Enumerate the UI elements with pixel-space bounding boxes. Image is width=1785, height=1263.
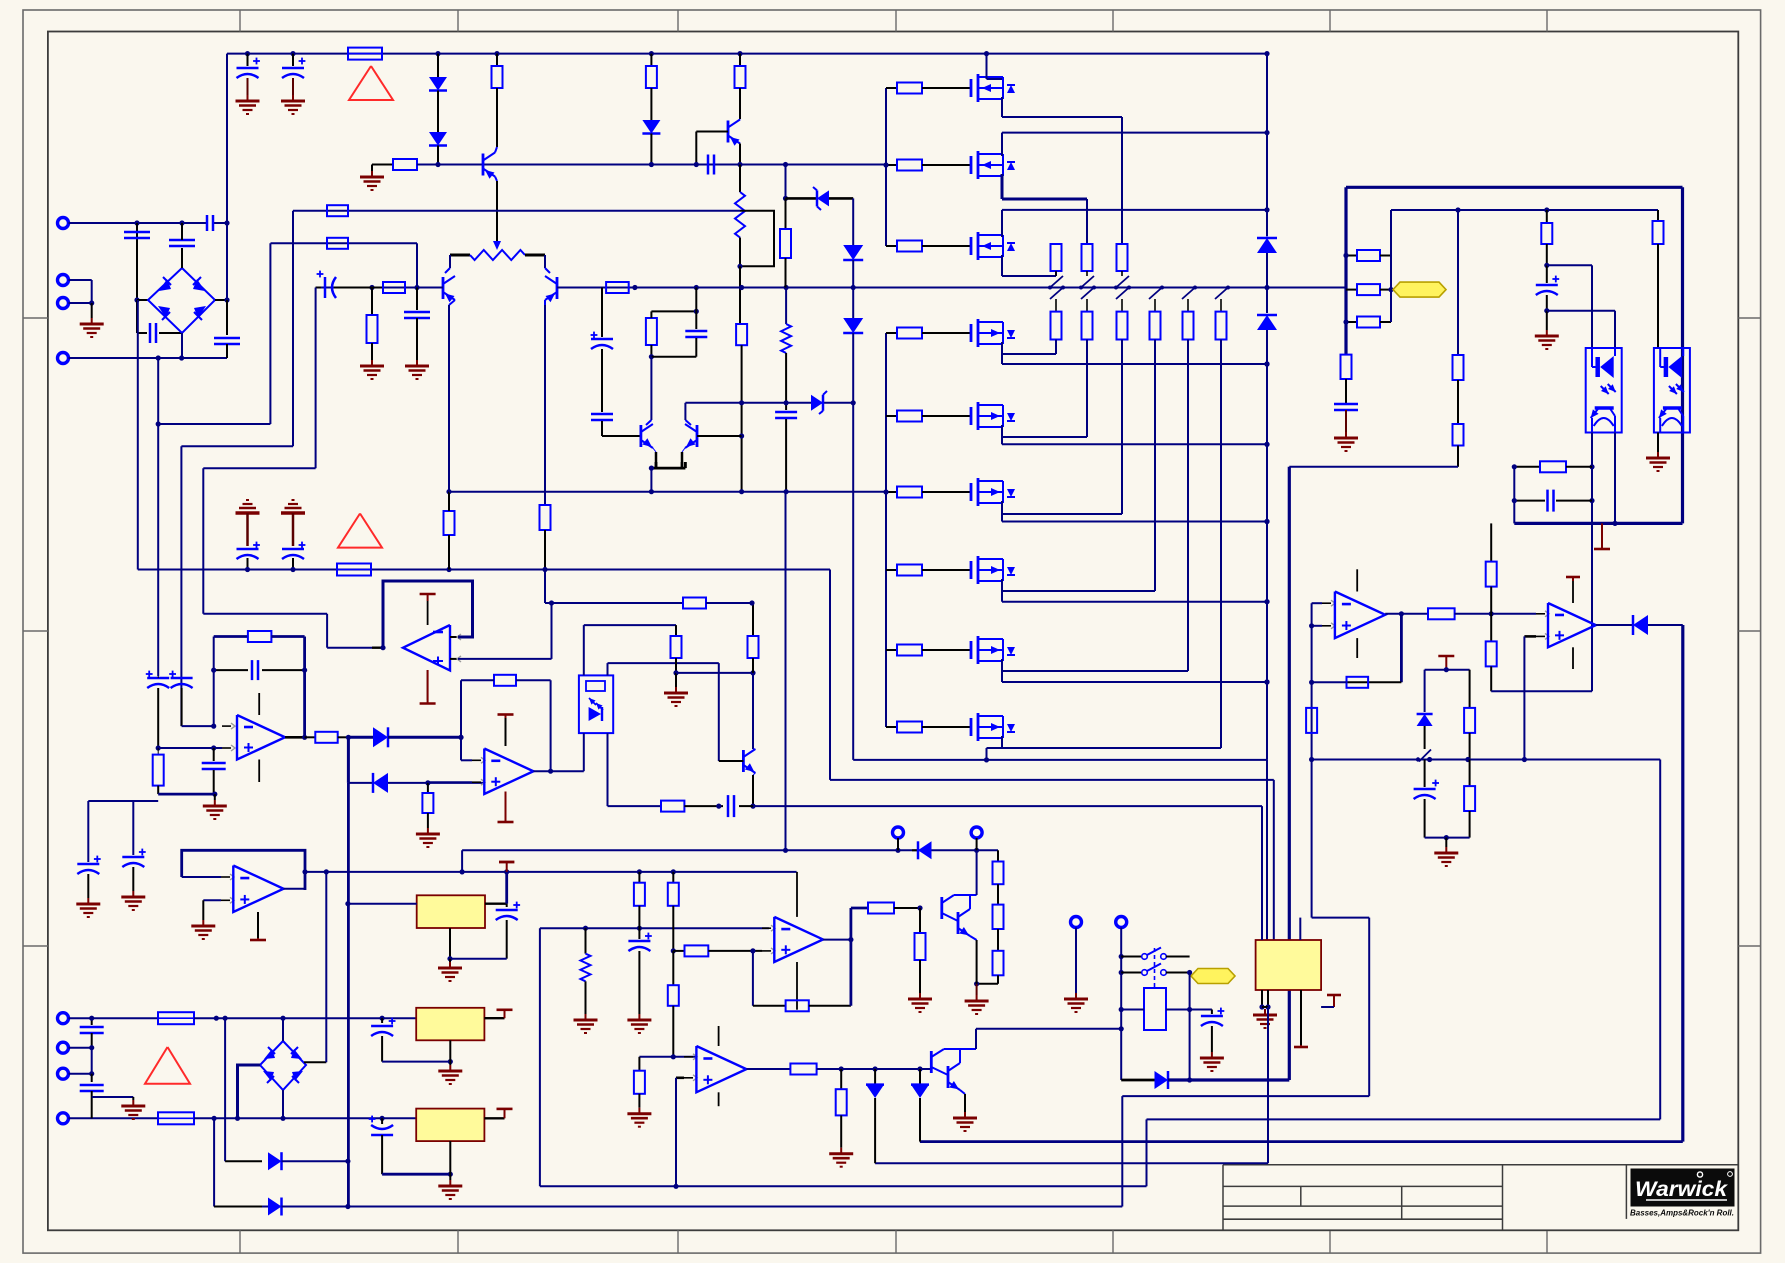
resistor R4 on y211: [327, 205, 348, 216]
x225 drop to diode row1: [224, 1018, 226, 1161]
x1189 riser: [1189, 973, 1191, 1081]
op-amp U7: [472, 759, 481, 761]
zener D14: [874, 1069, 876, 1085]
diode chain x853: [852, 198, 854, 245]
U10 output: [746, 1068, 790, 1070]
rectifier diode D17: [268, 1198, 282, 1216]
vertical x1311: [1311, 603, 1313, 917]
Q1 emitter drop to pot wiper: [495, 177, 497, 182]
Q4 base wire: [696, 131, 728, 133]
MOSFET M7: [958, 569, 971, 571]
branch y468: [203, 467, 315, 469]
main top rail +supply: [227, 53, 1267, 55]
fuse F1 on top rail: [348, 48, 382, 60]
freewheel diode D7: [1266, 288, 1268, 314]
riser x1391: [1390, 210, 1392, 322]
capacitor X1 on pin1 wire: [206, 215, 209, 231]
series resistor R to U5: [1428, 608, 1455, 619]
chassis ground branch: [92, 1096, 134, 1098]
terminal ring T11: [893, 827, 904, 838]
bottom wire threshold cluster: [1425, 837, 1470, 839]
cap R block x651-x696: [651, 310, 696, 312]
snubber cap column x602: [601, 288, 603, 338]
net label relay: [1191, 969, 1235, 984]
chain x998 resistors: [997, 850, 999, 861]
MOSFET M6: [958, 491, 971, 493]
relay coil K1: [1144, 988, 1166, 1030]
gate resistor lower row 4: [886, 332, 897, 334]
base resistor Q8: [851, 907, 868, 910]
wire pin4 to bridge bottom net: [69, 357, 228, 359]
wire y603 from rail: [545, 602, 683, 604]
cap under plus: [213, 748, 215, 761]
staircase vertical x158: [157, 358, 159, 676]
Q4 emitter down: [739, 144, 741, 165]
ground VR3: [449, 1180, 451, 1186]
bridge B2 top pin: [282, 1018, 284, 1041]
ground sense cap 1: [87, 898, 89, 904]
power flag cap pair at x293: [292, 499, 295, 501]
U4 output wire: [1385, 613, 1428, 615]
M9 source to bottom rail: [1001, 736, 1003, 748]
U11 output wire: [284, 888, 305, 890]
gate resistor bus upper: [885, 88, 887, 246]
zigzag resistor x786: [785, 288, 787, 325]
sense cap 1: [77, 863, 99, 866]
gate drive wire y491: [449, 491, 886, 493]
thick right drop x1682: [1681, 187, 1684, 523]
push-pull transistor Q6: [696, 425, 699, 447]
wire y806 to IC: [753, 805, 1262, 807]
wire y466 left: [1289, 466, 1458, 468]
input caps pair: [147, 677, 169, 680]
lower resistor drop wires: [1055, 340, 1057, 355]
bridge B2 left pin thick: [238, 1065, 261, 1118]
staircase vertical x181: [180, 446, 182, 726]
aux rail y872: [305, 871, 797, 873]
diode D2: [429, 132, 447, 146]
threshold cluster power stub: [1445, 656, 1447, 670]
M1 source wire: [1001, 97, 1003, 117]
R x673 upper: [672, 872, 674, 883]
ground base R Q8: [919, 993, 921, 999]
branch x203 drop: [202, 468, 204, 614]
power stub right of IC: [1327, 994, 1341, 997]
R divider x676: [675, 625, 677, 636]
cap column x91 upper: [91, 1018, 93, 1025]
MOSFET M8: [958, 649, 971, 651]
wire pin3: [69, 302, 92, 304]
Warwick logo: [1631, 1169, 1734, 1206]
R x639 to ground: [638, 1057, 640, 1071]
zener D15: [919, 1069, 921, 1085]
trimmer wiper box loop: [740, 211, 774, 267]
feedback resistor op3: [214, 635, 248, 638]
junction x438 y164: [435, 162, 440, 167]
resistor R1 startup: [496, 54, 498, 66]
gate resistor upper row 2: [886, 164, 897, 166]
power stub y523: [1601, 523, 1603, 549]
minus net op2: [639, 1056, 696, 1058]
VR2 input cap: [381, 1018, 383, 1023]
U5 power stubs: [1572, 581, 1574, 603]
ground threshold cluster: [1445, 838, 1447, 847]
reservoir capacitor C1: [247, 54, 249, 66]
opto U2 emitter pin: [1591, 433, 1593, 692]
gate resistor lower row 5: [886, 415, 897, 417]
VR3 ground pin: [449, 1141, 451, 1174]
ground C7: [416, 360, 418, 366]
resistor R2: [372, 164, 393, 166]
U11 power stub: [257, 912, 259, 938]
terminal J1 pin1: [58, 218, 69, 229]
border zone tick marks bottom: [239, 1230, 241, 1253]
branch y424: [156, 421, 161, 426]
ground x1546: [1546, 330, 1548, 336]
coil right wire: [1166, 1009, 1190, 1011]
x853 down to bank bottom rail: [852, 403, 854, 760]
sense caps risers: [87, 801, 89, 862]
wire y243: [271, 242, 418, 244]
terminal J1 pin3: [58, 298, 69, 309]
M3 drain wire: [1001, 210, 1003, 237]
regulator VR1 top: [417, 895, 485, 928]
diode D4: [843, 245, 863, 260]
corner x417 y243 down: [416, 243, 418, 287]
M2 drain wire: [1001, 133, 1003, 156]
mid rail left portion: [316, 287, 443, 289]
wire y672: [676, 672, 753, 674]
terminal T13: [58, 1013, 69, 1024]
U5 plus wire: [1524, 635, 1536, 638]
Q7 base wire: [719, 760, 744, 762]
MOSFET M2: [958, 164, 971, 166]
gate bus junction upper: [883, 162, 888, 167]
terminal ring T12: [971, 827, 982, 838]
title block table: [1223, 1164, 1738, 1166]
darlington Q8: [940, 897, 943, 919]
minus net y928: [540, 927, 769, 929]
IC pin wire y806 corner: [1261, 806, 1263, 940]
VR1 output riser to aux rail: [505, 872, 508, 904]
IC pin power stub: [1300, 990, 1302, 1045]
junction x372 y287: [369, 285, 374, 290]
resistor R10 x740 top: [739, 54, 741, 66]
optocoupler U2: [1586, 348, 1622, 433]
steering diode D11: [348, 736, 373, 739]
right bus junctions: [1264, 361, 1269, 366]
op-amp U5 right: [1536, 613, 1545, 615]
MOSFET M4: [958, 332, 971, 334]
terminal T10: [1116, 917, 1127, 928]
switch SW1a: [1121, 956, 1141, 958]
ground x976: [976, 984, 978, 995]
op-amp U11: [221, 876, 230, 878]
x740 chain to resistor R11: [739, 266, 741, 324]
fuse F3: [158, 1012, 194, 1024]
steering diode D12 row: [347, 737, 350, 783]
VR2 output power stub: [484, 1017, 504, 1019]
zener Z1: [817, 190, 829, 206]
MOSFET M9: [958, 726, 971, 728]
terminal J1 pin4: [58, 353, 69, 364]
gate resistor bus lower: [885, 333, 887, 727]
junction dots top rail: [245, 51, 250, 56]
IC stub top: [1299, 918, 1301, 940]
ground x676: [675, 687, 677, 693]
op-amp U12 facing left: [372, 647, 383, 649]
cap below y759: [1424, 760, 1426, 788]
U11 feedback box: [182, 850, 305, 890]
bus y779: [830, 779, 1274, 781]
Q9 collector riser: [966, 1048, 976, 1050]
bus y1186: [540, 1185, 1147, 1187]
wire y402: [685, 402, 853, 404]
M1 drain to rail: [986, 54, 988, 79]
bottom wire op3: [158, 793, 215, 796]
bus y1119 left drop: [1146, 1119, 1148, 1186]
wire y759: [1312, 759, 1661, 761]
opto U8 photo pin right: [607, 663, 609, 675]
regulator VR3 bottom: [416, 1109, 484, 1142]
aux mains wire y1118: [194, 1117, 416, 1119]
Q8 collector to diode node: [976, 850, 978, 895]
staircase from rail y569 to bus x830: [829, 570, 831, 780]
border zone tick marks left: [23, 317, 48, 319]
resistor R12 on mid rail: [606, 282, 629, 293]
R to ground at x427: [427, 783, 429, 793]
divider chain x1458: [1457, 210, 1459, 355]
capacitor on x227 column: [226, 300, 228, 335]
op-amp U10: [684, 1056, 693, 1058]
wire bridge bottom to x182 column: [181, 333, 183, 358]
wire D1-D2: [437, 91, 439, 133]
U11 plus wire: [203, 899, 221, 901]
border zone tick marks right: [1738, 317, 1760, 319]
Q8 emitter to ground: [976, 940, 978, 984]
right bus x1267: [1266, 54, 1268, 236]
opto U8 cathode bottom wire: [607, 733, 609, 806]
U4 power line: [1356, 569, 1358, 591]
R x673 lower: [672, 951, 674, 985]
U10 power line: [718, 1026, 720, 1046]
VR3 input cap: [381, 1118, 383, 1124]
terminal T9: [1071, 917, 1082, 928]
transistor Q7: [742, 750, 745, 772]
cap x639: [638, 928, 640, 939]
op3 left column: [213, 637, 215, 727]
op-amp U6: [222, 725, 231, 727]
emitter Q6: [682, 448, 685, 452]
U5 output diode D8: [1596, 624, 1633, 626]
gate resistor upper row 1: [886, 87, 897, 89]
U12 plus input wire: [458, 658, 552, 660]
R x639 upper: [638, 872, 640, 883]
resistor right branch: [1469, 670, 1471, 708]
net label flag output: [1393, 282, 1446, 297]
threshold cluster top wire: [1425, 669, 1470, 671]
resistor below y759: [1469, 760, 1471, 787]
x785 drop from driver: [785, 492, 787, 851]
U9 output: [823, 939, 851, 941]
U9 feedback loop: [752, 951, 754, 1006]
junction x696 y287: [694, 285, 699, 290]
drain sharing resistors lower: [1055, 299, 1057, 312]
coil left wire: [1121, 1009, 1144, 1011]
series resistor after U6: [315, 732, 337, 743]
wire pin1 to cap row: [69, 222, 207, 224]
sense resistors 3x: [1346, 255, 1357, 257]
junction x741 y287: [739, 285, 744, 290]
base wire left transistor pair: [602, 435, 641, 437]
gate resistor lower row 7: [886, 569, 897, 571]
ground snubber: [1211, 1052, 1213, 1058]
link jumpers upper to mid rail: [1050, 276, 1063, 288]
switch mechanical link dashed: [1154, 948, 1156, 988]
resistor R9 x651 top: [650, 54, 652, 66]
diode D9: [1424, 670, 1426, 712]
junction x634 y287: [632, 285, 637, 290]
darlington Q9: [930, 1051, 933, 1073]
gate resistor lower row 9: [886, 726, 897, 728]
ground AC input: [91, 318, 93, 324]
U10 plus wire: [676, 1077, 684, 1080]
opto U2 collector pin: [1614, 433, 1616, 524]
ground x585: [585, 1014, 587, 1020]
junction x227 y300: [224, 297, 229, 302]
diode D1: [437, 54, 439, 77]
op-amp U9: [762, 927, 771, 929]
wire y211 to pot box: [293, 210, 740, 212]
optocoupler U3: [1654, 348, 1690, 433]
zigzag R x585: [585, 928, 587, 953]
ground U11 plus: [202, 920, 204, 926]
bridge rectifier B1: [148, 268, 215, 333]
capacitor x1346: [1334, 403, 1358, 406]
ground R7: [371, 360, 373, 366]
relay catch diode D10: [1121, 1079, 1154, 1082]
IC pins from buses: [1261, 990, 1263, 1007]
VR1 power flag on rail: [499, 861, 514, 864]
resistor R7 to ground: [371, 288, 373, 316]
ground x427: [427, 828, 429, 834]
x214 drop to diode row2: [213, 1118, 215, 1206]
bus y759 to IC drop: [1266, 760, 1268, 940]
ground T9: [1075, 993, 1077, 999]
wire bridge top vertex to cap: [181, 248, 183, 268]
comparator left drop x539: [539, 928, 541, 1186]
VR1 input wire: [348, 903, 417, 905]
rectifier diode D16: [268, 1152, 282, 1170]
regulator VR2 mid: [416, 1008, 484, 1041]
cap x1546 polarized: [1536, 284, 1558, 287]
M3 source wire: [1001, 255, 1003, 276]
svg-text:Warwick: Warwick: [1635, 1178, 1728, 1201]
VR1 output cap: [506, 904, 508, 907]
bus y1206: [214, 1206, 1122, 1208]
resistor R13 x785: [785, 198, 787, 229]
junction x158 y358: [156, 355, 161, 360]
ground x639 low: [638, 1108, 640, 1114]
rail y569: [138, 569, 830, 571]
ground C2: [292, 95, 294, 101]
capacitor C on y164 wire: [707, 155, 710, 175]
gate resistor lower row 6: [886, 491, 897, 493]
ground x841: [840, 1148, 842, 1154]
op-amp U4 left: [1322, 602, 1331, 604]
opto U3 left bottom pin to ground: [1657, 433, 1659, 453]
bridge B2 right pin riser: [304, 1061, 326, 1063]
Q2 emitter to R chain x449: [449, 300, 455, 305]
junction node x137 y223: [134, 220, 139, 225]
PI cap y500: [1514, 500, 1545, 502]
border zone tick marks top: [239, 10, 241, 32]
ground VR1: [449, 962, 451, 968]
R below base Q8: [919, 908, 921, 933]
sense cap 2: [122, 856, 144, 859]
ground op3: [214, 794, 216, 800]
warning triangle 1: [349, 66, 393, 100]
resistor on x1311: [1306, 708, 1317, 733]
thick drop x1289: [1288, 467, 1291, 1080]
wire cap top to opto1: [1547, 264, 1592, 266]
bus y779 to IC drop: [1273, 780, 1275, 940]
fuse F4: [158, 1112, 194, 1124]
U6 power line: [258, 693, 260, 715]
rail left riser x137: [137, 300, 139, 570]
resistor R x1658: [1657, 210, 1659, 221]
cap on y806: [727, 795, 730, 817]
ground C1: [247, 95, 249, 101]
ground x1346: [1345, 432, 1347, 438]
gate resistor upper row 3: [886, 245, 897, 247]
coil drive wire from Q: [976, 1028, 1121, 1030]
thick drop x1683: [1681, 625, 1684, 1142]
MOSFET M5: [958, 415, 971, 417]
bias chain x1546: [1546, 210, 1548, 223]
wire y691: [1491, 690, 1592, 692]
terminal T16: [58, 1113, 69, 1124]
terminal J1 pin2: [58, 275, 69, 286]
Q3 emitter to x545 chain: [544, 300, 546, 305]
junction x786 y287: [784, 285, 789, 290]
U7 minus wire: [461, 759, 472, 761]
zener chain top wire y198: [785, 165, 787, 199]
VR1 output wire: [485, 903, 507, 905]
wire y613 to U12 output: [203, 613, 327, 615]
snubber cap relay: [1190, 1009, 1212, 1011]
reservoir capacitor C2: [292, 54, 294, 66]
bank bottom rail: [853, 759, 1267, 761]
zener Z2: [810, 402, 812, 404]
transistor Q3: [544, 255, 546, 268]
ground opto U3: [1657, 452, 1659, 458]
ground sense cap 2: [132, 891, 134, 897]
capacitor below-left of bridge: [137, 332, 147, 334]
collector chain x753: [752, 603, 754, 636]
chain x1491: [1490, 523, 1492, 561]
freewheel diode D6: [1257, 238, 1277, 253]
IC box SSR: [1256, 940, 1322, 990]
junction x417 y287: [414, 285, 419, 290]
U12 feedback box thick: [383, 581, 473, 648]
U12 power pins: [427, 594, 429, 601]
potentiometer wiper resistor: [450, 254, 470, 257]
warning triangle 3: [145, 1047, 190, 1084]
left drop of top rail: [226, 54, 228, 223]
MOSFET M1: [958, 87, 971, 89]
terminal T14: [58, 1042, 69, 1053]
